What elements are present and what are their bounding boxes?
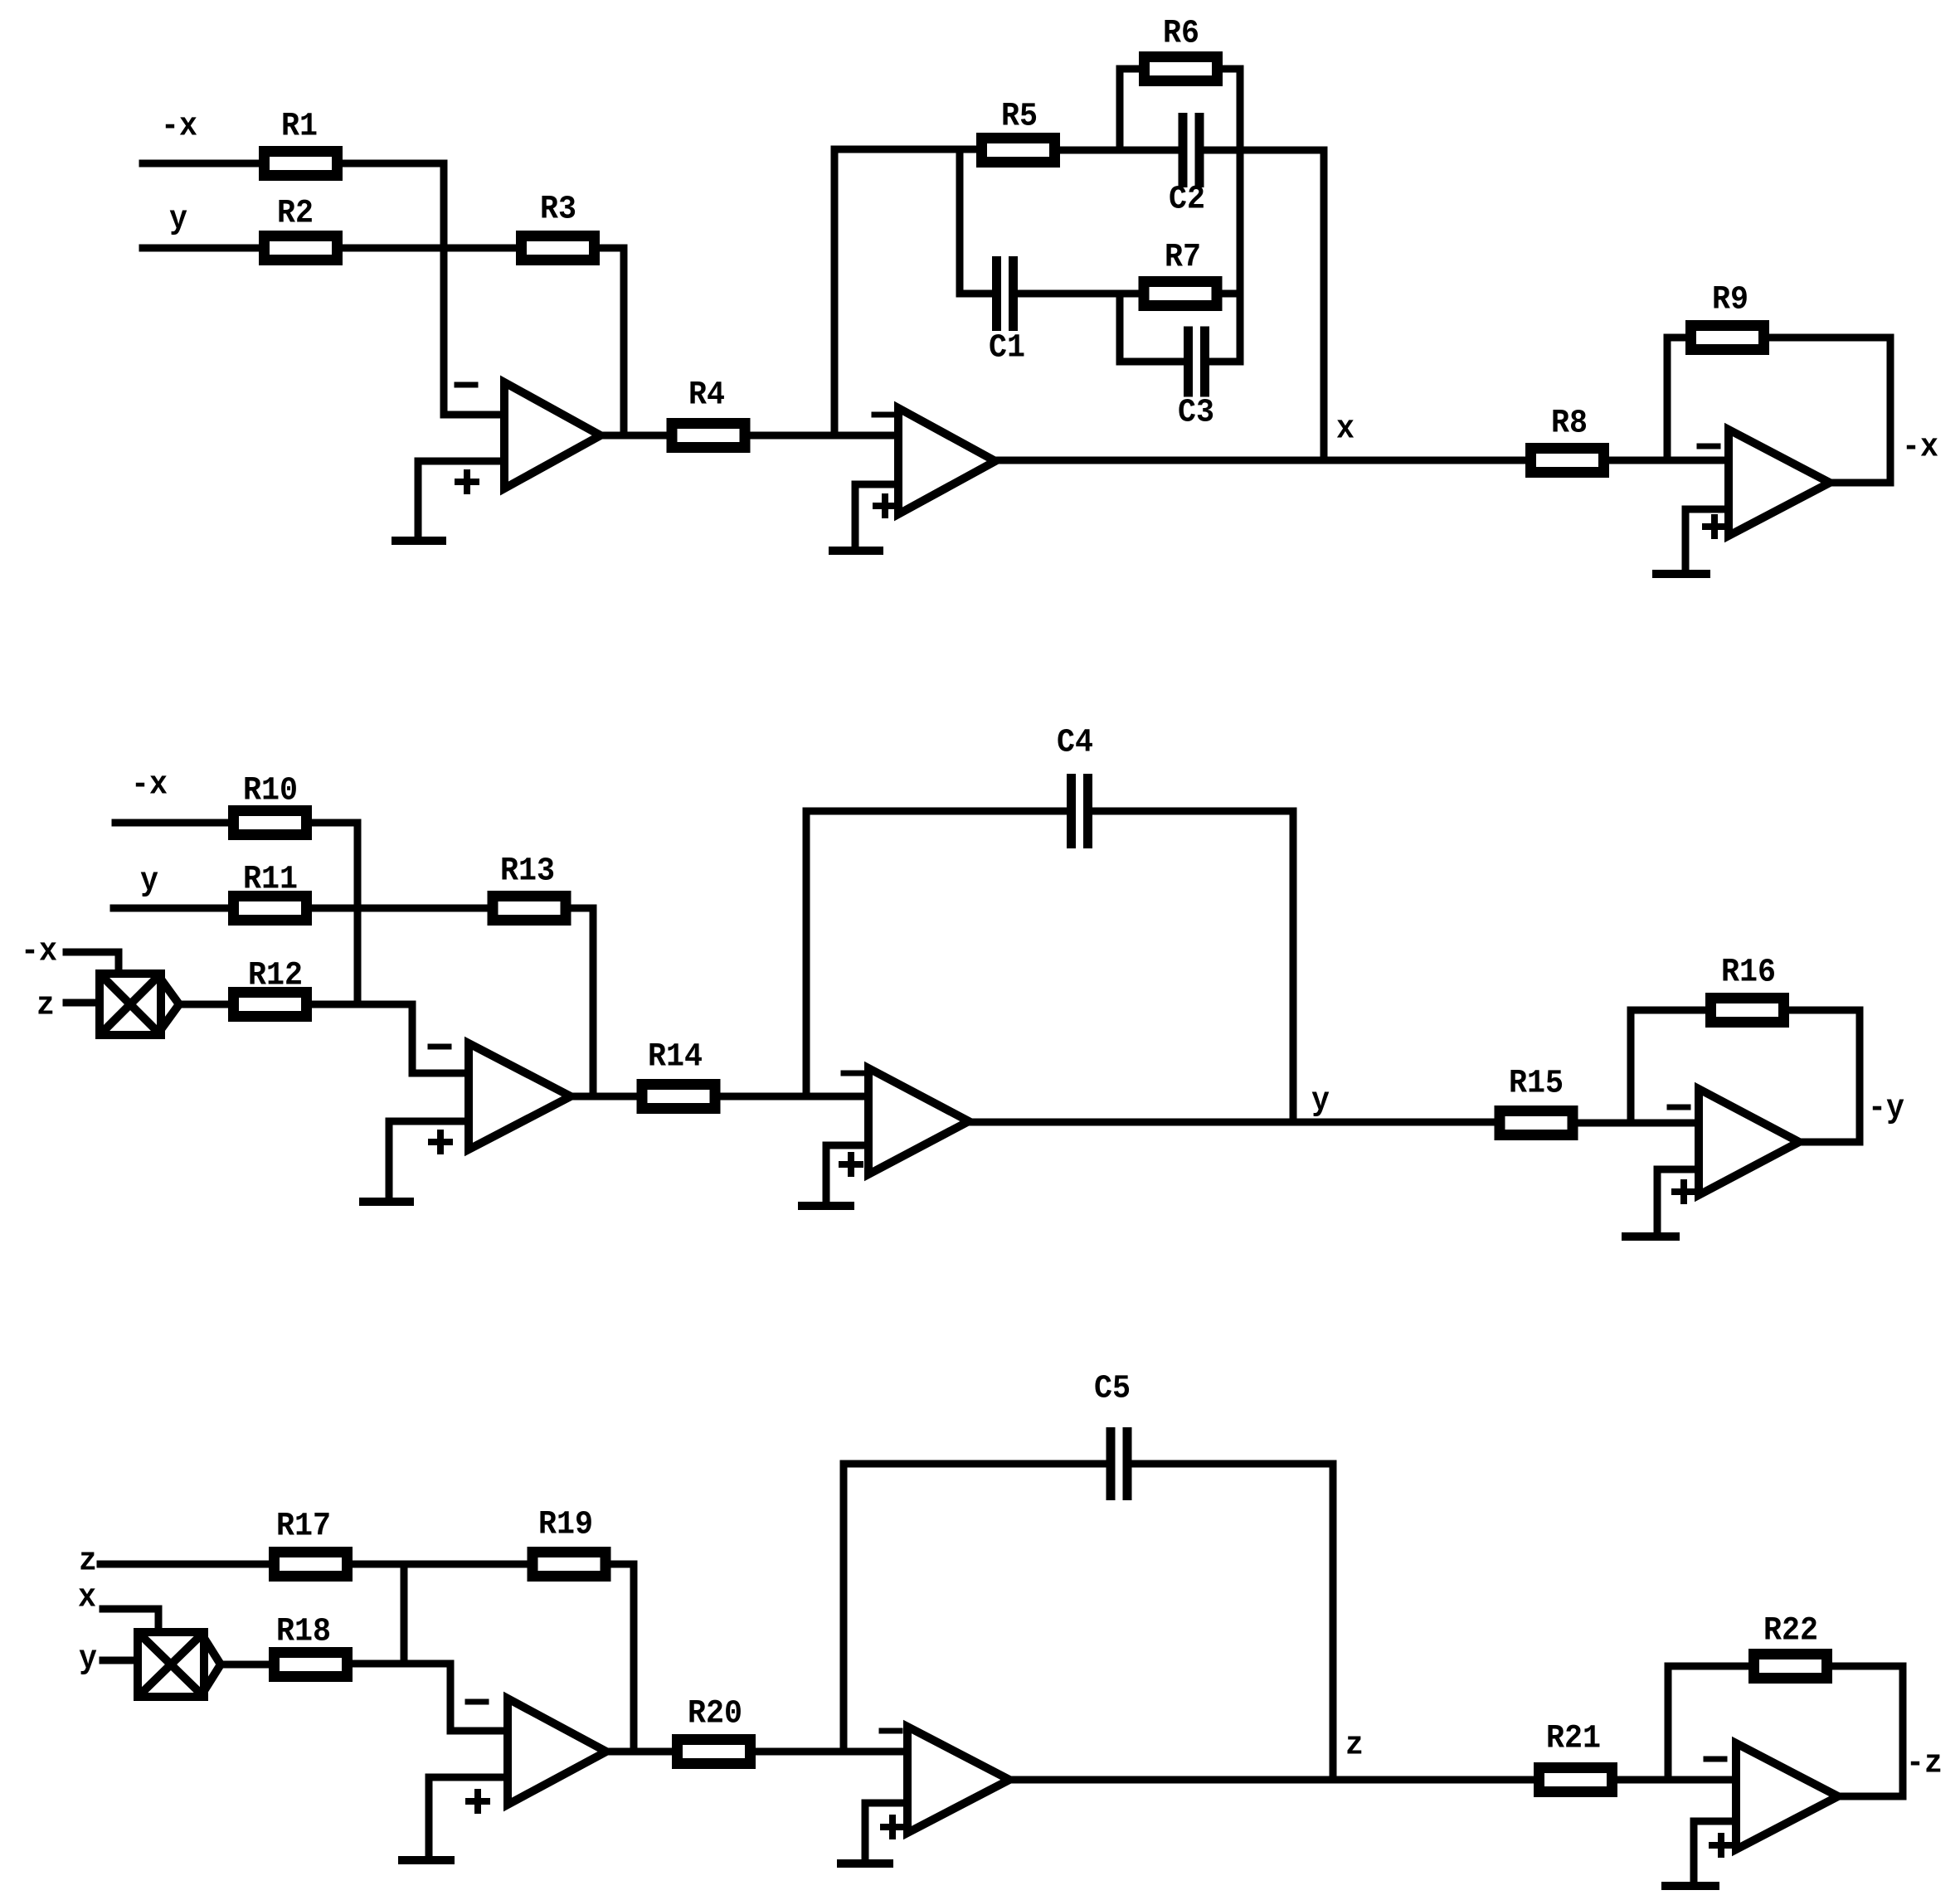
wire R4 to U2 minus — [750, 432, 898, 440]
wire U4 plus input — [389, 1121, 469, 1201]
wire R11 to R13 — [312, 905, 487, 912]
wire U7 plus input — [429, 1777, 508, 1859]
wire R1 to junction — [343, 160, 444, 168]
plus sign U2 — [876, 497, 894, 515]
svg-text:R19: R19 — [538, 1507, 593, 1544]
plus sign U4 — [431, 1133, 450, 1151]
op-amp U1 — [504, 382, 601, 488]
wire C3 to right stub — [1205, 358, 1240, 366]
wire row3 junction vertical — [401, 1564, 408, 1664]
wire to C3 — [1120, 358, 1188, 366]
wire R16 to corner — [1789, 1007, 1860, 1014]
wire U8 output to R21 (node z) — [1009, 1776, 1534, 1784]
svg-text:R20: R20 — [688, 1696, 742, 1733]
wire U5 output to R15 (node y) — [969, 1119, 1494, 1126]
resistor R12 — [234, 958, 307, 1017]
svg-text:R3: R3 — [540, 192, 576, 229]
ground U7 — [402, 1856, 450, 1864]
ground U1 — [396, 537, 442, 545]
node z multiplier input label — [36, 988, 55, 1025]
plus sign U6 — [1675, 1183, 1693, 1201]
wire R10 to junction — [312, 819, 357, 827]
svg-text:R15: R15 — [1509, 1066, 1564, 1103]
wire to C4 — [806, 808, 1071, 815]
wire R8 to U3 minus — [1609, 457, 1729, 464]
capacitor C5 — [1094, 1371, 1131, 1501]
wire -x to R1 — [143, 160, 259, 168]
wire R6 left stub — [1116, 69, 1124, 150]
wire -x to multiplier M1 — [66, 952, 119, 974]
op-amp U5 — [868, 1068, 969, 1174]
wire junction to U1 minus — [444, 411, 504, 419]
multiplier M2 — [138, 1632, 221, 1697]
wire R9 feedback left vertical — [1664, 338, 1671, 460]
svg-text:y: y — [169, 202, 187, 239]
svg-text:R5: R5 — [1001, 99, 1038, 136]
resistor R22 — [1754, 1613, 1827, 1679]
minus sign U1 — [457, 382, 475, 388]
resistor R16 — [1711, 955, 1784, 1023]
svg-text:R4: R4 — [688, 377, 725, 415]
capacitor C4 — [1057, 725, 1093, 849]
node x multiplier input label — [78, 1580, 96, 1617]
resistor R18 — [275, 1614, 348, 1677]
wire U3 plus input — [1685, 509, 1729, 573]
node -y output label — [1868, 1091, 1904, 1128]
plus sign U7 — [469, 1792, 487, 1810]
svg-text:R8: R8 — [1551, 406, 1588, 443]
svg-text:R1: R1 — [281, 109, 318, 146]
multiplier M1 — [100, 974, 179, 1035]
resistor R17 — [275, 1509, 348, 1577]
wire R16 feedback right vertical — [1856, 1010, 1864, 1142]
wire C4 feedback left vertical — [803, 811, 810, 1096]
minus sign U7 — [468, 1699, 486, 1705]
wire U4 output to R14 — [571, 1093, 636, 1101]
node x label — [1336, 411, 1354, 449]
ground U2 — [833, 547, 879, 555]
svg-text:R7: R7 — [1165, 240, 1201, 277]
wire R19 to corner — [611, 1561, 634, 1568]
node y label — [1311, 1083, 1330, 1120]
svg-text:-x: -x — [131, 767, 168, 804]
wire R16 feedback left vertical — [1627, 1010, 1635, 1123]
svg-text:-x: -x — [21, 934, 57, 971]
ground U6 — [1626, 1232, 1675, 1241]
node z input (row3) — [79, 1543, 97, 1581]
minus sign U9 — [1706, 1757, 1724, 1762]
wire R20 to U8 minus — [756, 1748, 907, 1756]
svg-text:R14: R14 — [648, 1039, 703, 1076]
wire R13 feedback vertical to U4 output — [590, 908, 597, 1096]
svg-text:R2: R2 — [277, 196, 314, 233]
svg-text:-z: -z — [1906, 1746, 1943, 1783]
svg-text:R21: R21 — [1546, 1721, 1601, 1758]
wire R7 to right stub — [1222, 290, 1240, 298]
resistor R21 — [1539, 1721, 1612, 1792]
wire corner down to U4 minus — [412, 1004, 469, 1073]
svg-text:y: y — [79, 1641, 97, 1679]
wire C1 to R7 — [1014, 290, 1139, 298]
minus sign U5 — [844, 1071, 862, 1076]
op-amp U2 — [898, 408, 995, 514]
resistor R19 — [533, 1507, 606, 1577]
node -x input (row1) — [161, 109, 197, 146]
wire to R9 — [1667, 334, 1685, 342]
wire R13 to corner — [571, 905, 593, 912]
wire z to multiplier M1 — [66, 999, 100, 1007]
svg-text:R12: R12 — [248, 958, 303, 995]
svg-text:-x: -x — [161, 109, 197, 146]
svg-text:C3: C3 — [1178, 395, 1214, 432]
op-amp U6 — [1699, 1089, 1799, 1195]
wire U1 output to R4 — [601, 432, 665, 440]
resistor R6 — [1145, 16, 1218, 81]
resistor R11 — [234, 862, 307, 921]
resistor R20 — [678, 1696, 751, 1764]
ground U5 — [802, 1202, 850, 1210]
resistor R5 — [982, 99, 1055, 163]
svg-text:z: z — [79, 1543, 97, 1581]
svg-text:C1: C1 — [989, 330, 1025, 367]
wire R22 feedback left vertical — [1665, 1666, 1672, 1780]
wire feedback right vertical to output node x — [1320, 150, 1328, 460]
minus sign U8 — [882, 1728, 900, 1734]
wire R3 to feedback corner — [600, 245, 624, 252]
wire R2 to R3 — [343, 245, 516, 252]
wire U3 output — [1830, 479, 1890, 487]
wire R3 feedback vertical to U1 output — [620, 248, 628, 435]
svg-text:-y: -y — [1868, 1091, 1904, 1128]
resistor R3 — [522, 192, 595, 260]
wire R6 right — [1223, 66, 1240, 73]
svg-text:x: x — [1336, 411, 1354, 449]
wire row2 junction vertical — [354, 823, 362, 1004]
wire y to R2 — [143, 245, 259, 252]
svg-text:y: y — [1311, 1083, 1330, 1120]
node y input (row1) — [169, 202, 187, 239]
resistor R13 — [493, 853, 566, 921]
node z label — [1345, 1727, 1364, 1765]
plus sign U9 — [1712, 1836, 1730, 1854]
plus sign U5 — [842, 1155, 860, 1174]
wire C1 branch vertical — [956, 150, 964, 294]
minus sign U2 — [874, 412, 892, 418]
wire to R6 — [1120, 66, 1139, 73]
resistor R9 — [1691, 282, 1764, 350]
svg-text:R9: R9 — [1712, 282, 1748, 319]
wire R19 feedback vertical to U7 output — [630, 1564, 638, 1752]
resistor R10 — [234, 773, 307, 835]
ground U8 — [841, 1859, 889, 1868]
wire R22 to corner — [1832, 1663, 1903, 1670]
plus sign U8 — [883, 1818, 902, 1836]
resistor R8 — [1531, 406, 1604, 473]
wire R21 to U9 minus — [1617, 1776, 1736, 1784]
ground U9 — [1666, 1882, 1715, 1890]
wire R5 to C2 — [1060, 147, 1183, 154]
svg-text:C4: C4 — [1057, 725, 1093, 762]
resistor R4 — [672, 377, 745, 448]
wire R6/R7/C3 right vertical — [1237, 69, 1244, 362]
wire feedback top line left — [834, 146, 976, 153]
svg-text:z: z — [1345, 1727, 1364, 1765]
svg-text:R6: R6 — [1163, 16, 1199, 53]
wire C5 feedback left vertical — [840, 1464, 848, 1752]
node -x input (row2) — [131, 767, 168, 804]
wire R14 to U5 minus — [721, 1093, 868, 1101]
node -x multiplier input label — [21, 934, 57, 971]
wire x to multiplier M2 — [103, 1609, 158, 1632]
svg-text:y: y — [140, 863, 158, 901]
wire U9 plus input — [1694, 1821, 1736, 1885]
wire C4 feedback right vertical to node y — [1290, 811, 1297, 1122]
wire -x to R10 — [115, 819, 228, 827]
svg-text:R16: R16 — [1721, 955, 1776, 992]
wire y to R11 — [114, 905, 228, 912]
wire M1 to R12 — [179, 1001, 228, 1008]
node y multiplier input label — [79, 1641, 97, 1679]
wire R22 feedback right vertical — [1899, 1666, 1907, 1796]
wire to C5 — [844, 1460, 1111, 1468]
wire to C1 — [960, 290, 996, 298]
resistor R1 — [265, 109, 338, 176]
wire C5 to right vertical — [1127, 1460, 1333, 1468]
resistor R2 — [265, 196, 338, 260]
wire R15 to U6 minus — [1578, 1120, 1699, 1127]
wire U2 output to R8 (node x) — [995, 457, 1525, 464]
wire R9 feedback right vertical — [1887, 338, 1894, 483]
node -z output label — [1906, 1746, 1943, 1783]
plus sign U3 — [1705, 518, 1724, 536]
wire corner down to U7 minus — [450, 1664, 508, 1731]
svg-text:C2: C2 — [1169, 182, 1205, 219]
wire R12 to corner — [312, 1001, 412, 1008]
capacitor C3 — [1178, 327, 1214, 432]
wire U6 output — [1799, 1139, 1860, 1146]
minus sign U3 — [1700, 444, 1718, 449]
wire U1 plus input — [418, 461, 504, 540]
svg-text:R11: R11 — [243, 862, 298, 899]
op-amp U3 — [1729, 430, 1830, 536]
svg-text:R18: R18 — [276, 1614, 331, 1651]
svg-text:R17: R17 — [276, 1509, 331, 1546]
wire M2 to R18 — [221, 1661, 269, 1669]
wire U2 plus input — [855, 484, 898, 550]
op-amp U7 — [508, 1698, 606, 1805]
node y input (row2) — [140, 863, 158, 901]
wire U9 output — [1838, 1793, 1903, 1800]
wire to R16 — [1631, 1007, 1705, 1014]
wire U8 plus input — [865, 1803, 907, 1863]
capacitor C1 — [989, 256, 1025, 367]
ground U4 — [363, 1198, 410, 1206]
plus sign U1 — [458, 473, 476, 491]
ground U3 — [1656, 570, 1706, 578]
resistor R7 — [1144, 240, 1217, 306]
wire to R22 — [1668, 1663, 1748, 1670]
resistor R15 — [1500, 1066, 1573, 1135]
svg-text:R22: R22 — [1763, 1613, 1818, 1650]
svg-text:x: x — [78, 1580, 96, 1617]
node -x output label — [1902, 430, 1938, 467]
minus sign U4 — [430, 1044, 449, 1050]
minus sign U6 — [1670, 1105, 1688, 1110]
wire U7 output to R20 — [606, 1748, 672, 1756]
wire C4 to right vertical — [1088, 808, 1293, 815]
wire C2 to right vertical — [1199, 147, 1324, 154]
op-amp U9 — [1736, 1743, 1838, 1849]
wire junction vertical to U1 inverting input — [440, 163, 448, 415]
wire R18 to corner — [353, 1660, 450, 1668]
wire U6 plus input — [1657, 1169, 1699, 1236]
wire y to multiplier M2 — [103, 1657, 138, 1664]
resistor R14 — [642, 1039, 715, 1109]
wire C5 feedback right vertical to node z — [1330, 1464, 1337, 1780]
wire integrator feedback left vertical — [831, 149, 839, 435]
svg-text:R10: R10 — [243, 773, 298, 810]
wire R17 to R19 — [353, 1561, 528, 1568]
svg-text:z: z — [36, 988, 55, 1025]
capacitor C2 — [1169, 113, 1205, 219]
svg-text:C5: C5 — [1094, 1371, 1131, 1408]
wire U5 plus input — [826, 1145, 868, 1205]
wire R9 to corner — [1769, 334, 1890, 342]
wire z to R17 — [100, 1561, 269, 1568]
svg-text:-x: -x — [1902, 430, 1938, 467]
wire C3 left stub — [1116, 294, 1124, 362]
svg-text:R13: R13 — [500, 853, 555, 891]
op-amp U8 — [907, 1727, 1009, 1833]
op-amp U4 — [469, 1043, 571, 1149]
